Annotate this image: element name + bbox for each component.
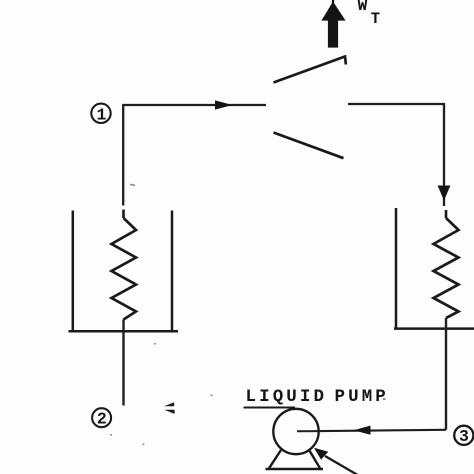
left HX coil (zigzag): [112, 210, 137, 320]
left HX vessel walls: [69, 211, 179, 332]
wire: right HX outlet down: [445, 318, 447, 430]
svg-text:2: 2: [97, 410, 107, 429]
svg-text:W: W: [358, 0, 368, 15]
wire: node1 riser and turbine inlet: [123, 105, 266, 206]
right HX vessel walls: [394, 208, 474, 329]
svg-text:T: T: [371, 10, 380, 28]
flow arrowhead into pump: [354, 426, 371, 435]
turbine U1 upper edge: [274, 57, 346, 83]
node 3: [454, 426, 473, 447]
wire: to pump inlet: [297, 430, 446, 432]
pump P1 body: [273, 409, 318, 454]
node 2: [92, 408, 111, 428]
svg-text:3: 3: [459, 427, 469, 446]
label LIQUID PUMP: [246, 387, 389, 407]
scan speckles: [110, 184, 386, 445]
underline mark below LIQUID: [244, 407, 296, 409]
flow arrowhead into turbine: [215, 100, 233, 109]
wire: turbine outlet to right HX: [348, 104, 444, 206]
svg-text:LIQUID: LIQUID: [246, 387, 328, 407]
node 1: [91, 104, 110, 125]
stray arrowhead marks near node 2: [164, 402, 175, 414]
turbine work output arrow W_T: [321, 0, 345, 48]
annotation arrow pointing at pump: [314, 448, 362, 474]
right HX coil (zigzag): [434, 210, 459, 318]
label W_T: [358, 0, 381, 28]
svg-text:1: 1: [97, 105, 107, 124]
pump shaft line inside body: [297, 430, 319, 432]
turbine U1 lower edge: [274, 133, 344, 159]
pump P1 base: [266, 449, 324, 469]
flow arrowhead down: [438, 186, 451, 201]
wire: left HX outlet down to node 2: [122, 320, 124, 406]
svg-text:PUMP: PUMP: [335, 387, 389, 407]
